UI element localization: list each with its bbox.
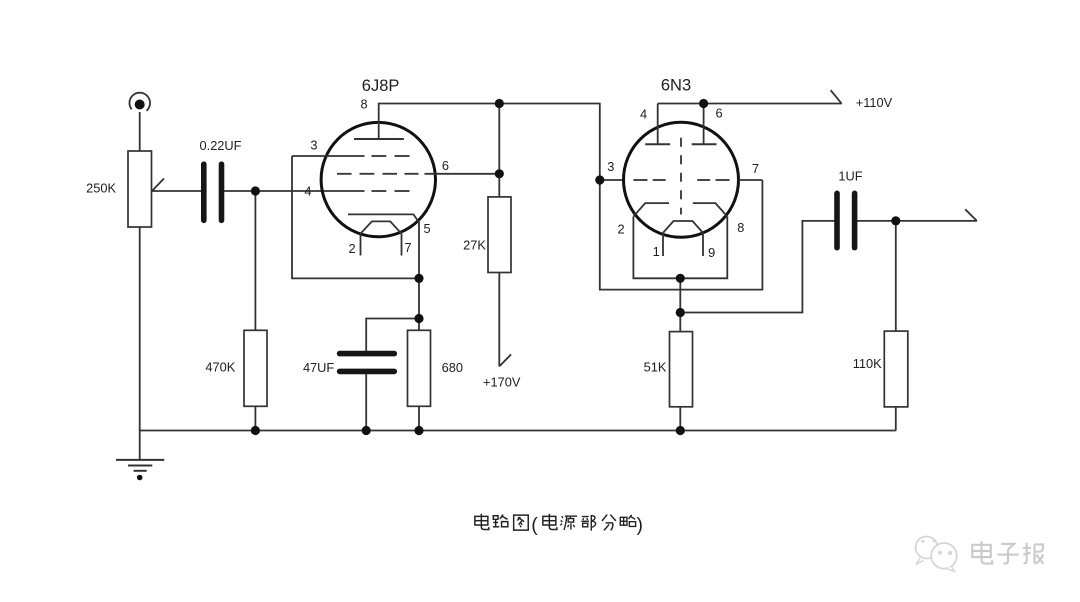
bus node 51K	[676, 426, 685, 435]
svg-text:2: 2	[348, 241, 355, 256]
capacitor C 47UF plates	[340, 351, 395, 357]
wire V1 pin6 to node	[425, 173, 500, 175]
svg-text:110K: 110K	[853, 356, 882, 371]
watermark char 子	[997, 544, 1018, 564]
terminal slash output	[965, 209, 977, 221]
V1 cathode line and pin5 lead	[348, 214, 419, 330]
capacitor C 0.22UF plates	[201, 164, 207, 220]
wire pot bottom to ground bus	[139, 227, 141, 431]
svg-text:1UF: 1UF	[838, 169, 862, 184]
svg-text:470K: 470K	[205, 360, 235, 375]
node input grid	[251, 186, 260, 195]
input jack	[129, 93, 150, 111]
watermark char 电	[972, 541, 992, 563]
V2 left plate bar	[645, 143, 670, 145]
svg-text:1: 1	[653, 244, 660, 259]
svg-text:+170V: +170V	[483, 375, 521, 390]
ground dot	[137, 475, 143, 481]
node V1 pin6	[495, 169, 504, 178]
svg-text:250K: 250K	[86, 181, 116, 196]
svg-text:): )	[637, 514, 644, 536]
V2 pin 4 lead	[657, 104, 659, 145]
svg-text:7: 7	[404, 240, 411, 255]
wire node down to R 470K	[254, 191, 256, 330]
node V2 plates	[699, 99, 708, 108]
watermark char 报	[1023, 543, 1044, 564]
svg-text:6N3: 6N3	[661, 76, 691, 94]
wire R 470K to ground bus	[254, 406, 256, 430]
V2 center divider dashed	[680, 138, 682, 215]
V1 heater pin 2 lead	[360, 234, 362, 256]
potentiometer wiper arrow	[152, 179, 164, 192]
svg-text:6J8P: 6J8P	[362, 77, 400, 95]
V2 heater pin 1 lead	[662, 233, 664, 256]
wire R 27K to +170V terminal	[498, 273, 500, 367]
V1 grid row pin3	[292, 155, 365, 157]
V2 heater filament	[663, 221, 703, 233]
svg-text:47UF: 47UF	[303, 360, 334, 375]
node V2 cathode box	[676, 274, 685, 283]
V2 grid dashes left	[633, 179, 647, 181]
node V2 grid	[595, 175, 604, 184]
watermark bubble eyes	[938, 551, 952, 555]
wire R 51K to bus	[679, 407, 681, 431]
svg-text:8: 8	[737, 220, 744, 235]
wire R 110K to bus	[895, 407, 897, 431]
V2 cathode box	[633, 217, 727, 279]
svg-text:51K: 51K	[644, 360, 667, 375]
wire R 680 to bus	[418, 406, 420, 430]
svg-text:7: 7	[752, 161, 759, 176]
node C 1UF output	[891, 216, 900, 225]
svg-text:(: (	[531, 514, 538, 536]
node top plate	[495, 99, 504, 108]
wire cathode node to output tap	[680, 221, 834, 313]
wire cathode node down to R 51K	[679, 278, 681, 331]
svg-text:3: 3	[607, 159, 614, 174]
terminal slash +110V	[831, 90, 842, 104]
wire grid3-to-cathode feedback	[292, 156, 419, 278]
V2 right plate bar	[692, 143, 717, 145]
resistor R 680 body	[408, 330, 431, 406]
svg-text:5: 5	[423, 221, 430, 236]
resistor R 27K body	[488, 197, 511, 273]
V1 grid row pin6 dashes	[337, 173, 352, 175]
svg-text:9: 9	[708, 245, 715, 260]
svg-text:680: 680	[442, 360, 463, 375]
capacitor C 47UF bottom wire	[365, 374, 367, 431]
potentiometer R 250K body	[128, 151, 152, 227]
ground stem	[139, 431, 141, 460]
wire output node to R 110K	[895, 221, 897, 331]
svg-text:8: 8	[360, 97, 367, 112]
V1 heater filament	[361, 221, 402, 233]
wire jack to pot	[139, 112, 141, 151]
wire plates to +110V terminal	[658, 103, 842, 105]
svg-text:4: 4	[640, 107, 647, 122]
bus node 470K	[251, 426, 260, 435]
caption char 略	[620, 515, 635, 526]
bus node 47UF	[362, 426, 371, 435]
watermark wechat big bubble	[931, 543, 957, 569]
V2 heater pin 9 lead	[702, 233, 704, 256]
jack center dot	[135, 100, 145, 110]
tube V1 6J8P envelope	[321, 122, 435, 236]
V2 left cathode	[633, 203, 669, 216]
wire C 1UF to output	[857, 220, 977, 222]
wire node to R 27K	[498, 104, 500, 197]
caption char 电	[543, 514, 557, 530]
V1 grid row pin4 dashes	[372, 190, 387, 192]
wire wiper to C1	[152, 190, 202, 192]
caption char 图	[514, 515, 529, 530]
wire C1 to grid node to tube V1 pin4	[224, 190, 324, 192]
wire top node to V2 grid node	[499, 104, 624, 181]
caption char 电	[475, 514, 489, 530]
capacitor C 1UF plates	[834, 193, 840, 247]
V2 pin 7 wire to grid box	[739, 179, 763, 181]
terminal slash +170V	[499, 354, 511, 366]
bus node 680	[414, 426, 423, 435]
caption char 部	[581, 515, 595, 531]
tube V2 6N3 envelope	[624, 122, 739, 237]
node output tap	[676, 308, 685, 317]
svg-text:3: 3	[310, 138, 317, 153]
svg-text:4: 4	[304, 184, 311, 199]
watermark wechat small bubble	[916, 537, 938, 559]
caption char 源	[560, 516, 577, 530]
ground bus wire	[140, 430, 896, 432]
V1 heater pin 7 lead	[401, 234, 403, 256]
V1 pin 8 lead	[379, 104, 500, 140]
svg-text:+110V: +110V	[856, 95, 893, 110]
ground symbol bars	[116, 459, 164, 461]
svg-text:6: 6	[442, 158, 449, 173]
V2 right cathode	[693, 203, 728, 216]
V2 pin 6 lead	[703, 104, 705, 145]
V1 anode plate bar	[354, 138, 404, 140]
V2 grid dashes right	[697, 179, 710, 181]
node 47UF top	[414, 314, 423, 323]
resistor R 470K body	[244, 330, 267, 406]
caption char 分	[602, 515, 616, 531]
resistor R 110K body	[884, 331, 908, 407]
svg-text:6: 6	[715, 106, 722, 121]
svg-text:27K: 27K	[463, 238, 486, 253]
svg-text:2: 2	[617, 222, 624, 237]
caption char 路	[493, 515, 508, 527]
V2 grid box	[600, 180, 763, 290]
resistor R 51K body	[670, 332, 693, 407]
node V1 cathode feedback	[414, 274, 423, 283]
capacitor C 47UF top wire	[366, 319, 419, 352]
svg-text:0.22UF: 0.22UF	[200, 138, 242, 153]
